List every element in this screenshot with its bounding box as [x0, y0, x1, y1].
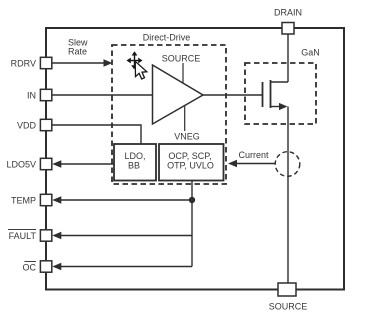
svg-text:Direct-Drive: Direct-Drive — [143, 33, 191, 43]
wire VDD to LDO — [52, 125, 141, 144]
svg-text:BB: BB — [128, 161, 140, 171]
pin RDRV — [11, 57, 52, 68]
dashed box Direct-Drive — [112, 33, 226, 185]
wire DRAIN lead — [287, 34, 289, 82]
pin FAULT — [8, 230, 52, 242]
outer device box — [46, 28, 344, 290]
svg-text:Rate: Rate — [68, 47, 87, 57]
pin SOURCE — [269, 283, 308, 312]
pin VDD — [17, 119, 52, 130]
svg-text:SOURCE: SOURCE — [162, 54, 201, 64]
wire slew rate arrow — [52, 59, 113, 66]
svg-text:OC: OC — [23, 263, 37, 273]
wire IN to amp — [52, 94, 153, 96]
block OCP SCP OTP UVLO — [159, 144, 224, 181]
node junction dot — [189, 197, 195, 203]
wire source lead down to SOURCE pin — [287, 107, 289, 284]
wire current sense arrow — [228, 160, 275, 167]
dashed box GaN — [245, 48, 320, 125]
svg-text:LDO,: LDO, — [124, 151, 145, 161]
svg-text:VNEG: VNEG — [174, 132, 200, 142]
svg-text:SOURCE: SOURCE — [269, 302, 308, 312]
wire LDO5V — [52, 160, 114, 167]
svg-text:FAULT: FAULT — [9, 231, 37, 241]
pin TEMP — [11, 194, 52, 205]
pin LDO5V — [6, 158, 51, 169]
svg-text:Current: Current — [238, 150, 269, 160]
svg-text:OCP, SCP,: OCP, SCP, — [168, 151, 211, 161]
svg-text:LDO5V: LDO5V — [6, 160, 36, 170]
pin IN — [27, 89, 52, 100]
block LDO BB — [114, 144, 156, 181]
svg-text:RDRV: RDRV — [11, 59, 36, 69]
pin OC — [23, 261, 52, 273]
wire OC — [52, 263, 192, 270]
wire protection bus vertical — [191, 181, 193, 267]
current sensor dashed circle — [275, 152, 300, 177]
svg-text:VDD: VDD — [17, 121, 37, 131]
svg-text:IN: IN — [27, 91, 36, 101]
pin DRAIN — [274, 8, 302, 35]
wire TEMP — [52, 196, 192, 203]
wire FAULT — [52, 232, 192, 239]
svg-text:OTP, UVLO: OTP, UVLO — [167, 161, 214, 171]
svg-text:DRAIN: DRAIN — [274, 8, 302, 18]
cursor icon (move cursor + pointer) — [127, 51, 147, 79]
op-amp driver triangle — [153, 54, 204, 142]
svg-text:GaN: GaN — [301, 48, 320, 58]
svg-text:TEMP: TEMP — [11, 196, 36, 206]
wire amp output to gate — [203, 94, 263, 96]
transistor Q1 GaN FET — [263, 80, 289, 110]
